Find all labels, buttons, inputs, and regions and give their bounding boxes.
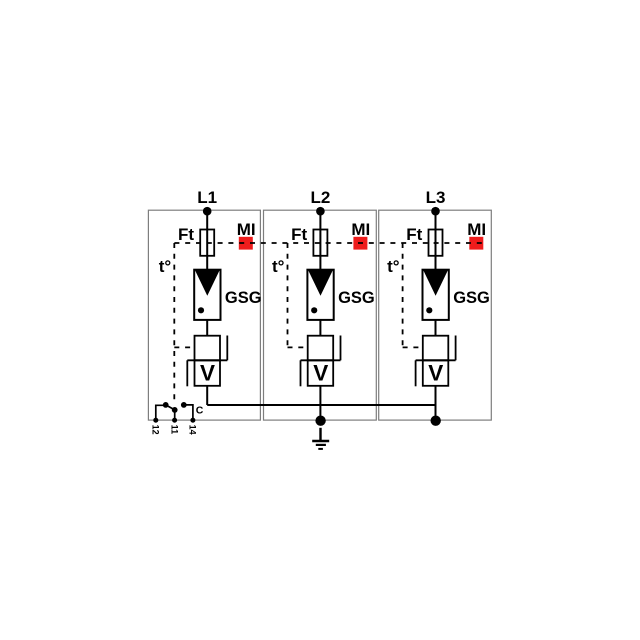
svg-text:GSG: GSG — [225, 289, 262, 307]
svg-text:11: 11 — [169, 425, 179, 435]
spark gap GSG1 gas dot — [198, 307, 204, 313]
svg-text:MI: MI — [467, 220, 486, 239]
svg-text:V: V — [313, 360, 328, 385]
switch fixed contact dot (12) — [163, 402, 169, 408]
thermal disconnect dashed link to varistor, phase 2 — [288, 346, 308, 348]
wire GSG2 to varistor V2 — [319, 320, 321, 336]
svg-text:12: 12 — [151, 425, 161, 435]
svg-text:t°: t° — [387, 257, 400, 276]
spark gap GSG1 triangle electrode — [195, 270, 220, 296]
thermal disconnect dashed link to varistor, phase 1 — [174, 346, 194, 348]
svg-text:L2: L2 — [310, 188, 330, 207]
svg-text:C: C — [196, 405, 204, 417]
fuse Ft2 — [313, 230, 327, 256]
varistor V1 disconnector middle bar — [187, 359, 227, 361]
node L1 junction dot — [203, 207, 212, 216]
fuse Ft3 — [429, 230, 443, 256]
fuse Ft1 — [200, 230, 214, 256]
wire V2 down to PE terminal — [319, 386, 321, 421]
svg-text:V: V — [200, 360, 215, 385]
terminal dot 14 — [190, 418, 195, 423]
svg-text:t°: t° — [159, 257, 172, 276]
svg-text:MI: MI — [351, 220, 370, 239]
spark gap GSG2 gas dot — [311, 307, 317, 313]
earth bus wire connecting all three varistors — [207, 404, 435, 406]
terminal dot 12 — [153, 418, 158, 423]
wire L1 to fuse Ft1 and to spark gap — [206, 211, 208, 270]
varistor V3 disconnector left arm — [415, 360, 417, 386]
varistor V2 with disconnector: upper box — [308, 336, 334, 361]
thermal disconnect dashed line (vertical), phase 2 — [287, 243, 289, 347]
PE terminal dot phase 2 — [315, 416, 325, 426]
wire GSG1 to varistor V1 — [206, 320, 208, 336]
thermal disconnect dashed line (vertical), phase 1 — [173, 243, 175, 401]
enclosure block 1 outline — [148, 210, 260, 420]
monitoring indicator MI2 red square — [353, 237, 367, 250]
node L2 junction dot — [316, 207, 325, 216]
ground stem wire — [319, 428, 321, 440]
monitoring dashed line through fuses and MI indicators — [174, 242, 483, 244]
spark gap GSG3 body — [423, 270, 449, 320]
switch open contact dot (14) — [181, 402, 187, 408]
varistor V3 disconnector right arm — [455, 336, 457, 361]
switch lever wire (11 to 12 closed) — [166, 405, 175, 410]
varistor V1 lower box — [195, 360, 221, 386]
thermal disconnect dashed line (vertical), phase 3 — [402, 243, 404, 347]
svg-text:t°: t° — [272, 257, 285, 276]
ground symbol bar 2 — [316, 444, 326, 446]
svg-text:L1: L1 — [197, 188, 217, 207]
varistor V2 lower box — [308, 360, 334, 386]
svg-text:V: V — [428, 360, 443, 385]
svg-text:Ft: Ft — [291, 225, 307, 244]
PE terminal dot phase 3 — [431, 416, 441, 426]
svg-text:14: 14 — [188, 425, 198, 435]
varistor V3 lower box — [423, 360, 449, 386]
switch terminal 12 riser wire — [156, 405, 164, 420]
switch terminal 14 hook wire — [186, 405, 193, 420]
enclosure block 3 outline — [379, 210, 492, 420]
spark gap GSG2 body — [307, 270, 333, 320]
node L3 junction dot — [431, 207, 440, 216]
svg-text:Ft: Ft — [406, 225, 422, 244]
switch terminal 11 riser wire — [174, 410, 176, 420]
spark gap GSG3 gas dot — [426, 307, 432, 313]
svg-text:GSG: GSG — [338, 289, 375, 307]
varistor V1 with disconnector: upper box — [195, 336, 221, 361]
svg-text:MI: MI — [237, 220, 256, 239]
wire V3 down to PE terminal — [435, 386, 437, 421]
spark gap GSG2 triangle electrode — [308, 270, 333, 296]
ground symbol bar 1 — [312, 440, 329, 442]
svg-text:Ft: Ft — [178, 225, 194, 244]
varistor V3 disconnector middle bar — [416, 359, 456, 361]
enclosure block 2 outline — [264, 210, 377, 420]
svg-text:GSG: GSG — [453, 289, 490, 307]
varistor V1 disconnector right arm — [226, 336, 228, 361]
svg-text:L3: L3 — [426, 188, 446, 207]
terminal dot 11 — [172, 418, 177, 423]
switch pivot contact dot (11) — [172, 407, 178, 413]
wire GSG3 to varistor V3 — [435, 320, 437, 336]
monitoring indicator MI3 red square — [469, 237, 483, 250]
wire L2 to fuse Ft2 and to spark gap — [319, 211, 321, 270]
spark gap GSG3 triangle electrode — [423, 270, 448, 296]
varistor V2 disconnector middle bar — [301, 359, 341, 361]
varistor V1 disconnector left arm — [186, 360, 188, 386]
wire V1 down to earth bus corner — [206, 386, 208, 405]
varistor V2 disconnector left arm — [300, 360, 302, 386]
ground symbol bar 3 — [318, 448, 323, 450]
varistor V3 with disconnector: upper box — [423, 336, 449, 361]
varistor V2 disconnector right arm — [340, 336, 342, 361]
wire L3 to fuse Ft3 and to spark gap — [435, 211, 437, 270]
thermal disconnect dashed link to varistor, phase 3 — [403, 346, 423, 348]
spark gap GSG1 body — [194, 270, 220, 320]
monitoring indicator MI1 red square — [239, 237, 253, 250]
